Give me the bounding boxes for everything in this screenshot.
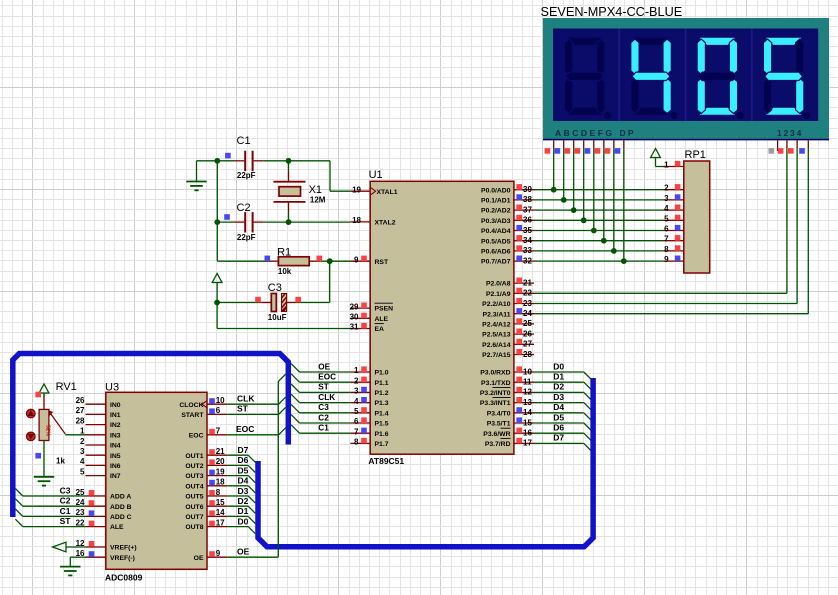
svg-text:1k: 1k: [56, 456, 65, 465]
node junction on P0.4/AD4: [591, 228, 597, 234]
U3 pin 1 (IN3) stub: [80, 427, 106, 436]
U3 pin 12 (VREF(+)) stub: [76, 539, 106, 548]
node label CLK (U1 side): [318, 393, 335, 402]
svg-text:ST: ST: [318, 383, 328, 392]
U1 pin name P1.0: [375, 370, 389, 377]
svg-text:22: 22: [523, 289, 532, 298]
svg-text:13: 13: [523, 398, 532, 407]
U3 pin 21 (OUT1) stub: [207, 447, 227, 456]
svg-text:7: 7: [664, 235, 669, 244]
svg-text:17: 17: [523, 439, 532, 448]
display body: [543, 18, 829, 140]
svg-text:OE: OE: [318, 362, 330, 371]
wire net ST U3 side: [227, 407, 285, 414]
U1 pin name P0.1/AD1: [481, 198, 511, 205]
U1 pin name P0.5/AD5: [481, 238, 511, 245]
U1 pin name P3.1/TXD: [481, 380, 511, 387]
wire U1 P2.1 to display digit 2: [534, 148, 787, 293]
node junction on P0.5/AD5: [601, 238, 607, 244]
data bus D0-D7 (bottom): [258, 378, 593, 547]
svg-text:DP: DP: [620, 128, 636, 138]
U1 pin name RST: [375, 259, 389, 266]
display digit select pin 2: [778, 140, 787, 153]
svg-text:27: 27: [523, 340, 532, 349]
U3 pin name OUT2: [185, 463, 203, 470]
wire U1 P3.6 net D6: [534, 433, 591, 440]
svg-text:5: 5: [354, 407, 359, 416]
svg-text:P2.5/A13: P2.5/A13: [482, 332, 511, 339]
svg-text:52%: 52%: [44, 425, 50, 436]
svg-text:IN1: IN1: [110, 412, 121, 419]
svg-text:P0.6/AD6: P0.6/AD6: [481, 249, 511, 256]
power VCC arrow near C3: [212, 274, 222, 303]
svg-text:25: 25: [523, 319, 532, 328]
display digit select pin 3: [788, 140, 797, 153]
RP1 pin 5: [663, 214, 683, 223]
svg-text:IN3: IN3: [110, 432, 121, 439]
power VCC arrow at RV1: [39, 384, 49, 409]
U1 pin 39 (P0.0/AD0) stub: [514, 184, 534, 194]
svg-text:P3.2/INT0: P3.2/INT0: [480, 390, 511, 397]
wire net D1 U3 side: [227, 516, 255, 523]
svg-text:32: 32: [523, 256, 532, 265]
svg-text:14: 14: [523, 408, 532, 417]
svg-text:26: 26: [76, 396, 85, 405]
wire RV1 to ground: [43, 441, 45, 477]
label R1: [277, 246, 291, 258]
power arrow VREF+: [53, 542, 86, 552]
U3 pin name OUT7: [185, 514, 203, 521]
U3 pin 5 (IN7) stub: [80, 467, 106, 476]
value ADC0809: [105, 572, 143, 582]
U1 pin name P2.2/A10: [482, 301, 511, 308]
svg-text:VREF(-): VREF(-): [110, 555, 135, 562]
node label D0 (U3 side): [238, 516, 249, 526]
svg-text:P0.3/AD3: P0.3/AD3: [481, 218, 511, 225]
svg-text:P3.3/INT1: P3.3/INT1: [480, 400, 511, 407]
U1 pin 31 (EA) stub: [350, 323, 371, 332]
U1 pin name P1.5: [375, 421, 389, 428]
wire U1 P3.7 net D7: [534, 443, 591, 450]
U1 pin 2 (P1.1) stub: [350, 376, 370, 385]
node label C3 (U1 side): [318, 403, 329, 412]
svg-text:P3.1/TXD: P3.1/TXD: [481, 380, 511, 387]
U3 pin 16 (VREF(-)) stub: [76, 549, 106, 558]
wire net C2 to U1 P1.5: [291, 415, 350, 423]
U1 pin name P2.3/A11: [483, 311, 511, 318]
U3 pin 23 (ADD C) stub: [76, 508, 106, 517]
U1 pin name P3.6/WR: [483, 428, 510, 438]
U3 pin 22 (ALE) stub: [76, 518, 106, 527]
svg-text:6: 6: [354, 417, 359, 426]
U3 pin name IN5: [110, 453, 121, 460]
svg-text:C2: C2: [60, 496, 71, 506]
wire net D6 U3 side: [227, 465, 255, 472]
node label D0 (U1 side): [553, 361, 564, 371]
U1 pin name P0.2/AD2: [481, 208, 511, 215]
svg-text:6: 6: [216, 406, 221, 415]
U3 pin name START: [181, 412, 204, 419]
U1 pin 7 (P1.6) stub: [350, 427, 370, 436]
wire C1 to XTAL1: [289, 161, 351, 191]
svg-text:EA: EA: [375, 326, 385, 333]
svg-text:D0: D0: [238, 516, 249, 526]
svg-text:C3: C3: [318, 403, 329, 412]
U1 pin 23 (P2.2/A10) stub: [514, 298, 534, 308]
wire net CLK to U1 P1.3: [291, 394, 350, 402]
U3 pin name VREF(-): [110, 555, 135, 562]
svg-text:6: 6: [664, 225, 669, 234]
node label D4 (U1 side): [553, 402, 564, 412]
U3 pin name IN7: [110, 473, 121, 480]
node label C3 (U3 side): [60, 485, 71, 495]
display segment pin F: [595, 140, 604, 240]
display segment pin D: [575, 140, 584, 220]
U1 pin name XTAL1: [377, 189, 398, 196]
node label C1 (U1 side): [318, 424, 329, 433]
svg-text:OUT7: OUT7: [185, 514, 203, 521]
svg-text:CLK: CLK: [318, 393, 335, 402]
svg-text:XTAL2: XTAL2: [375, 220, 396, 227]
U3 pin name IN0: [110, 402, 121, 409]
svg-text:D1: D1: [238, 506, 249, 516]
svg-text:27: 27: [76, 406, 85, 415]
svg-text:P2.3/A11: P2.3/A11: [483, 311, 511, 318]
svg-text:IN0: IN0: [110, 402, 121, 409]
U3 pin 24 (ADD B) stub: [76, 498, 106, 507]
svg-text:38: 38: [523, 195, 532, 204]
U3 pin name OUT8: [185, 524, 203, 531]
svg-text:ST: ST: [237, 404, 249, 414]
svg-text:P2.0/A8: P2.0/A8: [486, 281, 511, 288]
svg-text:14: 14: [216, 508, 225, 517]
svg-text:10uF: 10uF: [268, 313, 287, 322]
value 22pF C2: [237, 233, 256, 242]
svg-text:P3.6/WR: P3.6/WR: [483, 431, 510, 438]
RP1 pin 2: [663, 184, 683, 193]
U1 pin 21 (P2.0/A8) stub: [514, 278, 534, 288]
U1 pin name P1.6: [375, 431, 389, 438]
node label D5 (U3 side): [238, 465, 249, 475]
value 12M: [310, 195, 326, 204]
RV1 actuator down: [27, 432, 36, 441]
node label D7 (U1 side): [553, 433, 564, 443]
node label D6 (U1 side): [553, 423, 564, 433]
svg-text:C2: C2: [318, 413, 329, 422]
svg-text:CLK: CLK: [237, 394, 255, 404]
U1 pin 3 (P1.2) stub: [350, 387, 370, 396]
wire U1 P2.2 to display digit 3: [534, 148, 797, 303]
RP1 pin 1: [663, 161, 683, 170]
U1 pin 8 (P1.7) stub: [350, 438, 370, 447]
U3 pin name VREF(+): [110, 545, 137, 552]
display segment letters text: [555, 128, 636, 138]
svg-text:D6: D6: [553, 423, 564, 433]
U1 pin 26 (P2.5/A13) stub: [514, 329, 534, 339]
U3 pin name IN6: [110, 463, 121, 470]
svg-text:D4: D4: [238, 476, 249, 486]
svg-text:P3.0/RXD: P3.0/RXD: [480, 370, 510, 377]
svg-text:OUT8: OUT8: [185, 524, 203, 531]
wire VREF- to ground: [70, 557, 85, 566]
U1 pin name P0.3/AD3: [481, 218, 511, 225]
svg-text:C2: C2: [237, 202, 251, 214]
svg-text:21: 21: [216, 447, 225, 456]
U1 pin 18 (XTAL2) stub: [350, 216, 370, 225]
wire net OE to U1 P1.0: [291, 364, 350, 372]
wire net C2 to U3: [15, 499, 85, 506]
svg-text:P0.2/AD2: P0.2/AD2: [481, 208, 511, 215]
U3 pin 18 (OUT4) stub: [207, 478, 227, 487]
U3 pin name ADD C: [110, 514, 132, 521]
node label EOC (U1 side): [318, 373, 336, 382]
wire net EOC to U1 P1.1: [291, 374, 350, 382]
svg-text:3: 3: [354, 387, 359, 396]
svg-text:16: 16: [523, 429, 532, 438]
svg-text:23: 23: [523, 299, 532, 308]
U3 pin 28 (IN2) stub: [76, 416, 106, 425]
U1 pin name P1.4: [375, 410, 389, 417]
svg-text:4: 4: [664, 204, 669, 213]
node label D3 (U1 side): [553, 392, 564, 402]
svg-text:D0: D0: [553, 361, 564, 371]
svg-text:P1.1: P1.1: [375, 380, 389, 387]
svg-text:20: 20: [216, 457, 225, 466]
svg-text:C1: C1: [318, 424, 329, 433]
svg-text:11: 11: [523, 378, 532, 387]
svg-text:OE: OE: [237, 547, 250, 557]
U1 pin name P2.6/A14: [482, 342, 511, 349]
RP1 pin 3: [663, 194, 683, 203]
svg-text:P1.2: P1.2: [375, 390, 389, 397]
node label D4 (U3 side): [238, 476, 249, 486]
C2 pin state square: [224, 214, 230, 220]
label C1: [237, 135, 251, 147]
U3 pin name OUT6: [185, 504, 203, 511]
RV1 bottom pin state square: [35, 453, 41, 459]
label C2: [237, 202, 251, 214]
wire U1 P3.5 net D5: [534, 423, 591, 430]
resistor R1: [268, 257, 330, 266]
svg-text:1: 1: [664, 161, 669, 170]
wire net C1 to U1 P1.6: [291, 425, 350, 433]
svg-text:ALE: ALE: [110, 524, 124, 531]
svg-text:IN4: IN4: [110, 443, 121, 450]
U3 pin name IN4: [110, 443, 121, 450]
svg-text:C1: C1: [60, 506, 71, 516]
svg-text:P1.6: P1.6: [375, 431, 389, 438]
label RV1: [56, 381, 77, 393]
svg-text:5: 5: [80, 467, 85, 476]
svg-text:P1.0: P1.0: [375, 370, 389, 377]
svg-text:28: 28: [76, 416, 85, 425]
wire U1 P0.3/AD3 to RP1: [534, 219, 663, 221]
capacitor C2: [217, 212, 288, 232]
svg-text:2: 2: [354, 376, 359, 385]
U1 pin name P2.7/A15: [482, 352, 511, 359]
U1 pin 33 (P0.6/AD6) stub: [514, 245, 534, 255]
svg-text:10: 10: [523, 367, 532, 376]
svg-text:P1.4: P1.4: [375, 410, 389, 417]
node junction on P0.6/AD6: [611, 248, 617, 254]
svg-text:IN7: IN7: [110, 473, 121, 480]
U1 pin name P2.4/A12: [482, 322, 511, 329]
label X1: [309, 184, 322, 196]
node junction RST: [327, 258, 333, 264]
svg-text:OUT5: OUT5: [185, 494, 203, 501]
U1 pin 35 (P0.4/AD4) stub: [514, 225, 534, 235]
U3 pin name OUT5: [185, 494, 203, 501]
ground symbol GND3: [34, 477, 54, 486]
svg-text:P0.1/AD1: P0.1/AD1: [481, 198, 511, 205]
display digit 2 showing 4: [631, 37, 678, 119]
RP1 pin 7: [663, 235, 683, 244]
wire net D2 U3 side: [227, 506, 255, 513]
U3 pin name OE: [194, 555, 204, 562]
U3 pin name OUT4: [185, 483, 203, 490]
display title SEVEN-MPX4-CC-BLUE: [541, 5, 683, 19]
node label EOC (U3 side): [236, 424, 254, 434]
wire R1 to RST: [330, 260, 351, 262]
svg-text:P3.7/RD: P3.7/RD: [485, 441, 511, 448]
U1 pin name P0.0/AD0: [481, 187, 511, 194]
value 10k: [278, 267, 292, 276]
RP1 pin 4: [663, 204, 683, 213]
op-amp U3 body (ADC0809): [106, 392, 207, 569]
wire RST rail down to C3: [329, 261, 331, 302]
U1 pin name P3.5/T1: [487, 421, 511, 428]
U3 pin 7 (EOC) stub: [207, 427, 227, 436]
svg-text:1234: 1234: [777, 128, 803, 138]
node label D6 (U3 side): [238, 455, 249, 465]
svg-text:26: 26: [523, 329, 532, 338]
svg-text:3: 3: [80, 447, 85, 456]
wire VCC rail to EA: [217, 303, 350, 329]
svg-text:15: 15: [523, 418, 532, 427]
svg-text:P2.4/A12: P2.4/A12: [482, 322, 511, 329]
capacitor C3 polarized: [217, 294, 330, 312]
U1 pin 38 (P0.1/AD1) stub: [514, 194, 534, 204]
node junction C3 left: [214, 300, 220, 306]
svg-text:ADD A: ADD A: [110, 494, 131, 501]
svg-text:U3: U3: [105, 381, 119, 393]
U1 pin 6 (P1.5) stub: [350, 417, 370, 426]
U1 pin 15 (P3.5/T1) stub: [514, 417, 534, 427]
svg-text:P2.6/A14: P2.6/A14: [482, 342, 511, 349]
svg-text:2: 2: [664, 184, 669, 193]
wire gnd to C1 node: [197, 160, 218, 162]
svg-text:CLOCK: CLOCK: [179, 402, 203, 409]
U3 pin name OUT3: [185, 473, 203, 480]
svg-text:D1: D1: [553, 372, 564, 382]
C3 right pin state square: [295, 297, 301, 303]
svg-text:RST: RST: [375, 259, 389, 266]
node label C2 (U3 side): [60, 496, 71, 506]
node label ST (U3 side): [237, 404, 249, 414]
op-amp U1 body (AT89C51 MCU): [370, 181, 514, 454]
node label D2 (U1 side): [553, 382, 564, 392]
wire net C3 to U3: [15, 489, 85, 496]
potentiometer RV1 body: [39, 409, 50, 440]
U3 CLOCK chevron: [202, 401, 207, 408]
U3 pin 6 (START) stub: [207, 406, 227, 415]
svg-text:21: 21: [523, 278, 532, 287]
wire U1 P3.0 net D0: [534, 372, 591, 379]
svg-text:19: 19: [216, 467, 225, 476]
svg-text:10k: 10k: [278, 267, 292, 276]
wire RV1 wiper to IN3: [65, 434, 85, 436]
wire net ST to U3: [15, 519, 85, 526]
svg-text:ADD C: ADD C: [110, 514, 132, 521]
U1 pin name PSEN: [375, 303, 394, 313]
node label D3 (U3 side): [238, 486, 249, 496]
node junction on P0.1/AD1: [561, 197, 567, 203]
svg-text:P1.3: P1.3: [375, 400, 389, 407]
U3 pin name OUT1: [185, 453, 203, 460]
U1 pin name P3.7/RD: [485, 438, 511, 448]
svg-text:9: 9: [354, 255, 359, 264]
node junction C2 left: [214, 219, 220, 225]
svg-text:D2: D2: [553, 382, 564, 392]
U3 pin name ADD A: [110, 494, 131, 501]
svg-text:37: 37: [523, 205, 532, 214]
wire vertical C2-R1 left rail: [217, 222, 268, 261]
wire U1 P0.7/AD7 to RP1: [534, 260, 663, 262]
svg-text:18: 18: [216, 478, 225, 487]
power VCC arrow at RP1: [651, 149, 661, 167]
wire U1 P2.3 to display digit 4: [534, 148, 808, 314]
svg-text:OUT2: OUT2: [185, 463, 203, 470]
node label D7 (U3 side): [238, 445, 249, 455]
svg-text:2: 2: [80, 437, 85, 446]
U3 pin 2 (IN4) stub: [80, 437, 106, 446]
svg-text:12: 12: [523, 388, 532, 397]
svg-text:22pF: 22pF: [237, 171, 256, 180]
svg-text:24: 24: [523, 309, 532, 318]
node label D1 (U3 side): [238, 506, 249, 516]
U1 pin name ALE: [375, 316, 389, 323]
svg-text:19: 19: [352, 185, 361, 194]
wire net EOC U3 side: [227, 428, 285, 435]
U1 pin 13 (P3.3/INT1) stub: [514, 397, 534, 407]
svg-text:12M: 12M: [310, 195, 326, 204]
svg-text:1: 1: [354, 366, 359, 375]
value 10uF: [268, 313, 287, 322]
RV1 top pin state square: [35, 392, 41, 398]
U3 pin name IN3: [110, 432, 121, 439]
U1 pin 11 (P3.1/TXD) stub: [514, 377, 534, 387]
svg-text:D7: D7: [553, 433, 564, 443]
svg-text:7: 7: [216, 427, 221, 436]
svg-text:SEVEN-MPX4-CC-BLUE: SEVEN-MPX4-CC-BLUE: [541, 5, 683, 19]
svg-text:34: 34: [523, 236, 532, 245]
node label C2 (U1 side): [318, 413, 329, 422]
display segment pin C: [565, 140, 574, 210]
U3 pin 17 (OUT8) stub: [207, 518, 227, 527]
svg-text:33: 33: [523, 246, 532, 255]
capacitor C1: [217, 151, 288, 171]
svg-text:P2.2/A10: P2.2/A10: [482, 301, 511, 308]
U1 pin 17 (P3.7/RD) stub: [514, 438, 534, 448]
U3 pin name CLOCK: [179, 402, 203, 409]
svg-text:OUT6: OUT6: [185, 504, 203, 511]
wire net D3 U3 side: [227, 496, 255, 503]
svg-text:5: 5: [664, 214, 669, 223]
U1 pin 16 (P3.6/WR) stub: [514, 428, 534, 438]
svg-text:7: 7: [354, 427, 359, 436]
svg-text:P0.5/AD5: P0.5/AD5: [481, 238, 511, 245]
svg-text:R1: R1: [277, 246, 291, 258]
